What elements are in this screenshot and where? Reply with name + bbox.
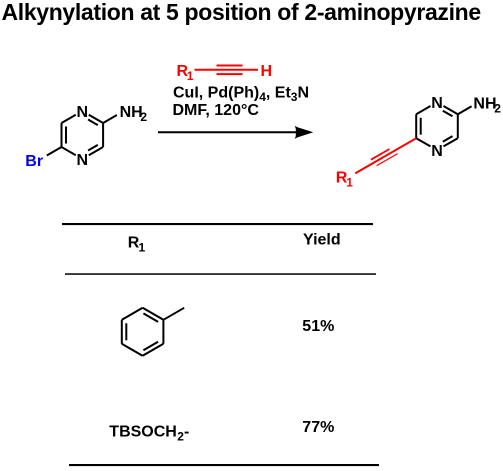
svg-text:-: - [184, 424, 189, 441]
svg-text:N: N [431, 95, 443, 112]
svg-text:TBSOCH: TBSOCH [109, 424, 177, 441]
svg-text:Yield: Yield [303, 232, 341, 249]
svg-text:2: 2 [140, 110, 147, 124]
svg-text:N: N [431, 143, 443, 160]
svg-text:1: 1 [187, 69, 194, 83]
svg-text:Alkynylation at 5 position of: Alkynylation at 5 position of 2-aminopyr… [2, 0, 481, 25]
svg-text:2: 2 [494, 101, 501, 115]
svg-text:NH: NH [120, 104, 143, 121]
svg-text:N: N [77, 104, 89, 121]
svg-text:H: H [261, 63, 273, 80]
svg-text:N: N [77, 152, 89, 169]
svg-text:51%: 51% [302, 318, 334, 335]
svg-text:77%: 77% [302, 419, 334, 436]
svg-text:1: 1 [346, 176, 353, 190]
svg-text:NH: NH [473, 95, 496, 112]
svg-text:1: 1 [139, 240, 146, 254]
svg-text:DMF, 120°C: DMF, 120°C [173, 102, 260, 119]
svg-text:Br: Br [25, 153, 43, 170]
